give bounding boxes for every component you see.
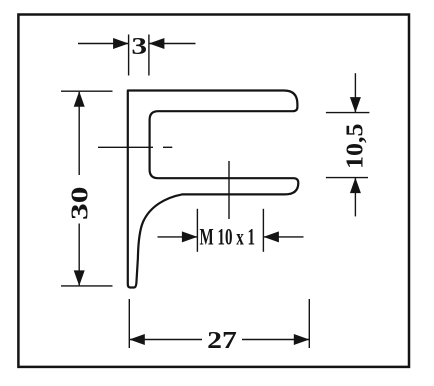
svg-text:10,5: 10,5 [343,124,369,170]
svg-text:3: 3 [131,33,147,60]
svg-text:M 10 x 1: M 10 x 1 [200,224,256,249]
svg-text:27: 27 [207,327,237,354]
svg-text:30: 30 [66,187,93,221]
